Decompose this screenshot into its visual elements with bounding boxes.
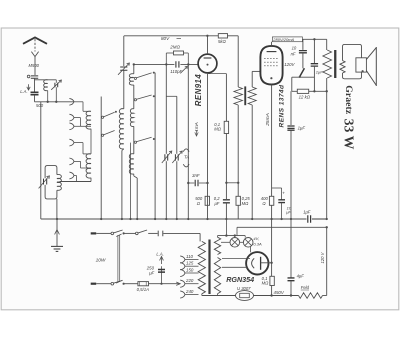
- wire: [281, 203, 283, 219]
- wire grid column: [133, 64, 135, 73]
- wire: [225, 74, 227, 122]
- wire: [225, 203, 227, 219]
- wire: [82, 143, 84, 154]
- capacitor 250uF: [158, 270, 165, 273]
- wire: [34, 95, 36, 102]
- wire right bus top: [326, 39, 328, 50]
- RGN354 filament: [252, 258, 255, 268]
- wire: [199, 233, 201, 241]
- wire: [237, 205, 239, 219]
- tick feld underline: [301, 289, 309, 291]
- svg-text:80V: 80V: [161, 36, 170, 41]
- wire: [225, 134, 227, 200]
- svg-text:2MΩ: 2MΩ: [169, 45, 180, 50]
- wire T1 sec bottom: [251, 105, 253, 219]
- wire from rail A down: [123, 36, 125, 66]
- arrow L.A. down: [27, 84, 30, 90]
- RENS grid dashes 2: [264, 61, 279, 63]
- svg-text:MΩ: MΩ: [214, 127, 221, 132]
- RENS anode bar: [267, 51, 277, 53]
- arrow L.A. up: [160, 256, 164, 264]
- RENS grid dashes 1: [264, 58, 279, 60]
- mains lug top: [91, 232, 97, 234]
- wire 2M right lead: [187, 53, 189, 64]
- capacitor L.A. blocking: [31, 92, 39, 94]
- wire mains bottom: [96, 283, 111, 285]
- wire: [312, 218, 327, 220]
- switch tone contact: [299, 76, 301, 78]
- svg-text:3nF: 3nF: [192, 173, 200, 178]
- svg-text:RENS 1374d: RENS 1374d: [279, 84, 286, 127]
- wire screen feed down: [237, 36, 239, 87]
- switch mains a pivot: [111, 232, 114, 235]
- wire tap 125: [185, 265, 199, 267]
- label box 280V/20mA: [272, 37, 302, 42]
- wire: [165, 161, 167, 219]
- svg-text:TA: TA: [184, 155, 189, 160]
- wire RENS cathode down: [271, 85, 273, 197]
- wire feedback: [292, 90, 327, 92]
- wire: [74, 175, 77, 177]
- switch link mechanical: [116, 234, 121, 283]
- RENS grid dashes 3: [264, 65, 279, 67]
- coil L2a: [86, 111, 91, 129]
- resistor 2M: [174, 51, 184, 55]
- speaker magnet: [356, 58, 367, 72]
- svg-text:120 V: 120 V: [320, 251, 325, 263]
- wire coil L6 down: [136, 178, 138, 219]
- wire: [302, 39, 304, 50]
- wire to 10uF: [272, 187, 282, 189]
- resistor 0.25M: [236, 196, 240, 205]
- wire to transformer: [163, 232, 200, 234]
- transformer T3 core: [208, 240, 210, 295]
- resistor 400: [269, 196, 273, 205]
- wire AVC vertical 1: [165, 64, 167, 153]
- wire coil top link: [35, 79, 57, 81]
- wire 3nF left: [188, 182, 194, 184]
- svg-text:0,3A: 0,3A: [253, 241, 262, 246]
- wire: [76, 176, 78, 182]
- coil antenna L1: [44, 80, 48, 91]
- trimmer CT4: [175, 154, 178, 160]
- capacitor 4uF: [288, 278, 295, 281]
- wire lamp stub: [234, 236, 236, 238]
- wire tap 110: [185, 259, 199, 261]
- wire coil L1 down: [47, 91, 49, 102]
- antenna arrow: [31, 52, 38, 57]
- switch S1a pivot: [102, 116, 104, 118]
- wire: [34, 79, 36, 92]
- svg-text:120V: 120V: [284, 62, 295, 67]
- svg-text:nF: nF: [291, 51, 296, 56]
- svg-text:25mA: 25mA: [265, 113, 271, 127]
- capacitor 1uF coupling: [287, 126, 294, 130]
- wire 1uF/4uF vertical: [290, 219, 292, 278]
- socket A4: [69, 139, 74, 146]
- wire: [74, 142, 83, 144]
- wire tap: [81, 125, 92, 127]
- coil L4 choke: [129, 74, 134, 85]
- trimmer CT2: [120, 67, 127, 70]
- svg-text:10: 10: [292, 46, 297, 51]
- trimmer frame CT0: [44, 179, 47, 185]
- wire filament 1: [222, 258, 250, 260]
- wire coil L3 down: [121, 151, 123, 220]
- wire: [291, 77, 293, 91]
- transformer T3 HT winding: [214, 258, 220, 294]
- svg-text:L.A.: L.A.: [20, 89, 27, 94]
- wire tap 150: [185, 272, 199, 274]
- svg-text:0,5/1A: 0,5/1A: [137, 287, 150, 292]
- resistor 12k: [297, 89, 308, 93]
- svg-text:450V: 450V: [274, 290, 285, 295]
- wire: [271, 205, 273, 219]
- wire lamp to tube: [250, 247, 252, 253]
- wire heater top: [218, 235, 246, 237]
- switch S1b pivot: [102, 134, 104, 136]
- wire: [82, 102, 84, 112]
- wire right bus: [326, 78, 328, 219]
- wire HT bottom: [202, 295, 236, 297]
- svg-text:M500: M500: [29, 63, 40, 68]
- wire 2M left lead: [165, 53, 167, 64]
- wire above 1uF: [290, 91, 292, 125]
- wire: [217, 236, 219, 238]
- wire: [90, 129, 92, 154]
- wire grid RENS: [252, 70, 260, 72]
- wire to ground: [56, 199, 58, 219]
- socket A2: [69, 114, 74, 121]
- wire 3nF right: [199, 182, 208, 184]
- transformer T2 secondary loop: [343, 44, 362, 78]
- arrow pickup: [180, 66, 187, 73]
- wire: [83, 153, 91, 155]
- wire: [74, 125, 81, 127]
- resistor field coil: [299, 293, 323, 299]
- capacitor 110pF: [176, 61, 179, 67]
- wire to selector: [149, 283, 180, 285]
- wire: [55, 87, 57, 102]
- socket selector 220: [180, 280, 185, 287]
- socket selector 240: [180, 291, 185, 298]
- capacitor 10uF electrolytic: [278, 200, 285, 203]
- wire: [254, 295, 299, 297]
- coil L3 tuning: [119, 109, 124, 149]
- wire: [74, 160, 81, 162]
- wire loop link: [60, 181, 91, 183]
- wire: [176, 161, 178, 219]
- REN914 anode bar: [204, 57, 212, 59]
- wire REN914 cathode down: [207, 73, 209, 219]
- wire: [90, 178, 92, 182]
- wire LA branch: [161, 266, 163, 284]
- svg-text:μF: μF: [214, 201, 220, 206]
- svg-text:12 kΩ: 12 kΩ: [299, 95, 311, 100]
- wire below 1uF: [290, 131, 292, 220]
- switch S2a arm: [137, 73, 152, 78]
- wire link: [166, 95, 177, 97]
- node rail A / REN914 anode: [206, 35, 208, 37]
- wire switch contact bus: [154, 73, 156, 219]
- wire RENS anode lead: [271, 42, 273, 46]
- wire: [74, 101, 83, 103]
- wire: [133, 174, 135, 176]
- wire T1 sec top: [251, 71, 253, 87]
- wire antenna bus: [35, 101, 75, 103]
- svg-text:RGN354: RGN354: [226, 275, 254, 284]
- wire: [290, 281, 292, 296]
- frame antenna loop: [45, 166, 57, 199]
- lamp 234.8: [230, 238, 240, 248]
- svg-text:150: 150: [186, 267, 194, 272]
- wire: [148, 232, 157, 234]
- wire: [184, 52, 189, 54]
- wire antenna lead (dashed): [34, 39, 36, 52]
- svg-text:1μF: 1μF: [298, 125, 306, 130]
- capacitor antenna series: [31, 76, 38, 78]
- svg-text:5kΩ: 5kΩ: [218, 39, 227, 44]
- coil L2b: [86, 154, 91, 178]
- resistor 5k: [218, 34, 227, 38]
- wire: [134, 176, 137, 178]
- wire rail A 80V: [124, 35, 219, 37]
- svg-text:220: 220: [185, 278, 194, 283]
- svg-text:10W: 10W: [96, 257, 106, 263]
- wire: [122, 149, 124, 151]
- wire RGN anode out: [261, 262, 272, 264]
- trimmer antenna CT1: [55, 83, 58, 87]
- svg-text:1μF: 1μF: [303, 209, 311, 214]
- wire HT vertical: [271, 219, 273, 276]
- wire filament 2: [222, 266, 248, 268]
- arrow current 1mA: [195, 130, 198, 136]
- svg-text:125: 125: [186, 261, 194, 266]
- tube REN914: [198, 54, 217, 73]
- wire mains top: [96, 232, 111, 234]
- socket selector 110: [180, 256, 185, 263]
- wire lamp stub 2: [244, 236, 246, 238]
- capacitor 0.2uF: [223, 200, 230, 203]
- RGN354 anode bar: [260, 257, 262, 270]
- wire antenna down: [34, 57, 36, 75]
- speaker dot: [362, 70, 364, 72]
- transformer T2 secondary winding: [340, 61, 345, 74]
- svg-text:Feld: Feld: [301, 285, 310, 290]
- transformer T2 core: [334, 50, 336, 78]
- svg-text:REN914: REN914: [194, 74, 203, 107]
- fuse U3007: [236, 291, 254, 301]
- mains lug bottom: [91, 283, 97, 285]
- svg-text:Graetz: Graetz: [343, 85, 354, 114]
- transformer T1 primary: [234, 87, 242, 105]
- switch S2c pivot: [134, 141, 136, 143]
- transformer T3 primary: [198, 241, 205, 293]
- capacitor 1uF series: [308, 215, 311, 223]
- socket A1: [69, 98, 74, 105]
- node antenna tap: [27, 75, 30, 78]
- wire tap 240: [185, 294, 199, 296]
- switch mains b arm: [138, 230, 147, 233]
- wire tap down: [130, 143, 132, 219]
- wire rail B: [302, 38, 326, 40]
- socket selector 125: [180, 263, 185, 270]
- arrow selector plug: [176, 282, 180, 285]
- transformer T3 heater winding: [214, 237, 220, 254]
- tick: [177, 38, 182, 40]
- wire left return down: [40, 102, 42, 219]
- ground: [51, 246, 63, 251]
- capacitor 10nF: [299, 51, 307, 53]
- coil L6: [129, 154, 134, 174]
- wire: [313, 66, 315, 91]
- svg-text:4μF: 4μF: [297, 273, 305, 278]
- switch S1b arm: [104, 131, 115, 135]
- wire: [83, 110, 91, 112]
- svg-text:33 W: 33 W: [342, 119, 357, 150]
- svg-text:110: 110: [186, 254, 194, 259]
- socket A5: [69, 158, 74, 165]
- wire: [124, 283, 138, 285]
- wire: [57, 181, 60, 183]
- svg-text:μF: μF: [285, 210, 291, 215]
- svg-text:240: 240: [185, 289, 194, 294]
- wire grid to tube: [180, 63, 198, 65]
- antenna: [23, 37, 47, 43]
- resistor 500: [205, 196, 209, 205]
- trimmer CT3: [165, 154, 168, 160]
- wire heater tap: [225, 219, 227, 236]
- wire: [271, 286, 273, 296]
- connector mains: [158, 231, 163, 237]
- wire: [166, 52, 173, 54]
- wire REN914 anode lead: [207, 36, 209, 54]
- wire lamps link: [240, 241, 244, 243]
- wire: [237, 105, 239, 196]
- transformer T2 primary: [323, 50, 332, 78]
- tube RENS1374d: [260, 46, 282, 85]
- svg-text:μF: μF: [148, 270, 154, 275]
- wire: [302, 53, 304, 68]
- capacitor 3nF: [195, 180, 198, 187]
- node: [123, 232, 125, 234]
- switch mains a arm: [114, 230, 123, 233]
- switch S2c arm: [137, 137, 152, 141]
- speaker cone: [366, 47, 376, 86]
- wire jumper: [226, 182, 238, 184]
- wire: [201, 294, 203, 296]
- svg-text:L.A.: L.A.: [156, 252, 163, 257]
- wire: [55, 80, 57, 83]
- RENS cathode dot: [270, 77, 272, 79]
- node: [123, 283, 125, 285]
- wire lamp feed: [221, 241, 230, 243]
- switch S1a arm: [104, 112, 115, 117]
- wire tap 220: [185, 283, 199, 285]
- resistor 0.1M bleeder: [270, 276, 274, 285]
- switch tone arm: [300, 68, 305, 76]
- wire AVC vertical 2: [176, 96, 178, 154]
- wire: [123, 70, 125, 108]
- REN914 cathode dot: [207, 64, 209, 66]
- wire grid-leak vertical: [187, 64, 189, 219]
- wire main vertical bus: [100, 97, 102, 220]
- wire tap: [81, 167, 92, 169]
- jack TA lower: [183, 164, 189, 167]
- switch mains b pivot: [136, 232, 139, 235]
- wire: [80, 118, 82, 127]
- jack TA upper: [183, 149, 189, 152]
- wire: [281, 188, 283, 200]
- capacitor 1uF tone: [311, 64, 318, 66]
- resistor 0.1M upper: [224, 121, 228, 133]
- tube RGN354: [246, 252, 268, 274]
- fuse 0.5/1A: [138, 282, 149, 286]
- socket A6: [69, 172, 74, 179]
- switch S2b pivot: [134, 99, 136, 101]
- svg-text:MΩ: MΩ: [262, 280, 269, 285]
- coil frame antenna: [57, 174, 62, 190]
- wire: [124, 232, 136, 234]
- wire tone link: [292, 76, 315, 78]
- socket selector 150: [180, 269, 185, 276]
- wire bus2: [237, 226, 327, 228]
- switch S2b arm: [137, 95, 152, 99]
- wire: [74, 117, 81, 119]
- wire: [323, 295, 327, 297]
- switch S2a pivot: [134, 77, 136, 79]
- wire: [133, 126, 135, 154]
- svg-text:280V/20mA: 280V/20mA: [272, 37, 294, 42]
- wire: [133, 85, 135, 109]
- wire cathode to resistor: [208, 73, 227, 75]
- wire: [228, 35, 239, 37]
- svg-text:+: +: [282, 190, 285, 195]
- lamp 248.2: [243, 238, 253, 248]
- socket A3: [69, 123, 74, 130]
- switch mains c pivot: [111, 282, 114, 285]
- svg-text:500: 500: [36, 103, 44, 108]
- svg-text:MΩ: MΩ: [242, 201, 249, 206]
- transformer T1 core: [244, 86, 246, 105]
- switch mains c arm: [114, 280, 123, 283]
- arrow ground: [55, 230, 60, 235]
- node: [160, 283, 162, 285]
- coil L5: [130, 109, 133, 127]
- wire right bus lower: [326, 227, 328, 295]
- wire: [313, 39, 315, 63]
- transformer T1 secondary: [248, 87, 256, 105]
- wire bottom bus: [41, 218, 307, 220]
- wire ground branch: [56, 219, 58, 246]
- wire: [217, 294, 219, 296]
- wire: [80, 161, 82, 168]
- wire bus2 corner: [236, 227, 238, 235]
- wire grid line: [134, 63, 175, 65]
